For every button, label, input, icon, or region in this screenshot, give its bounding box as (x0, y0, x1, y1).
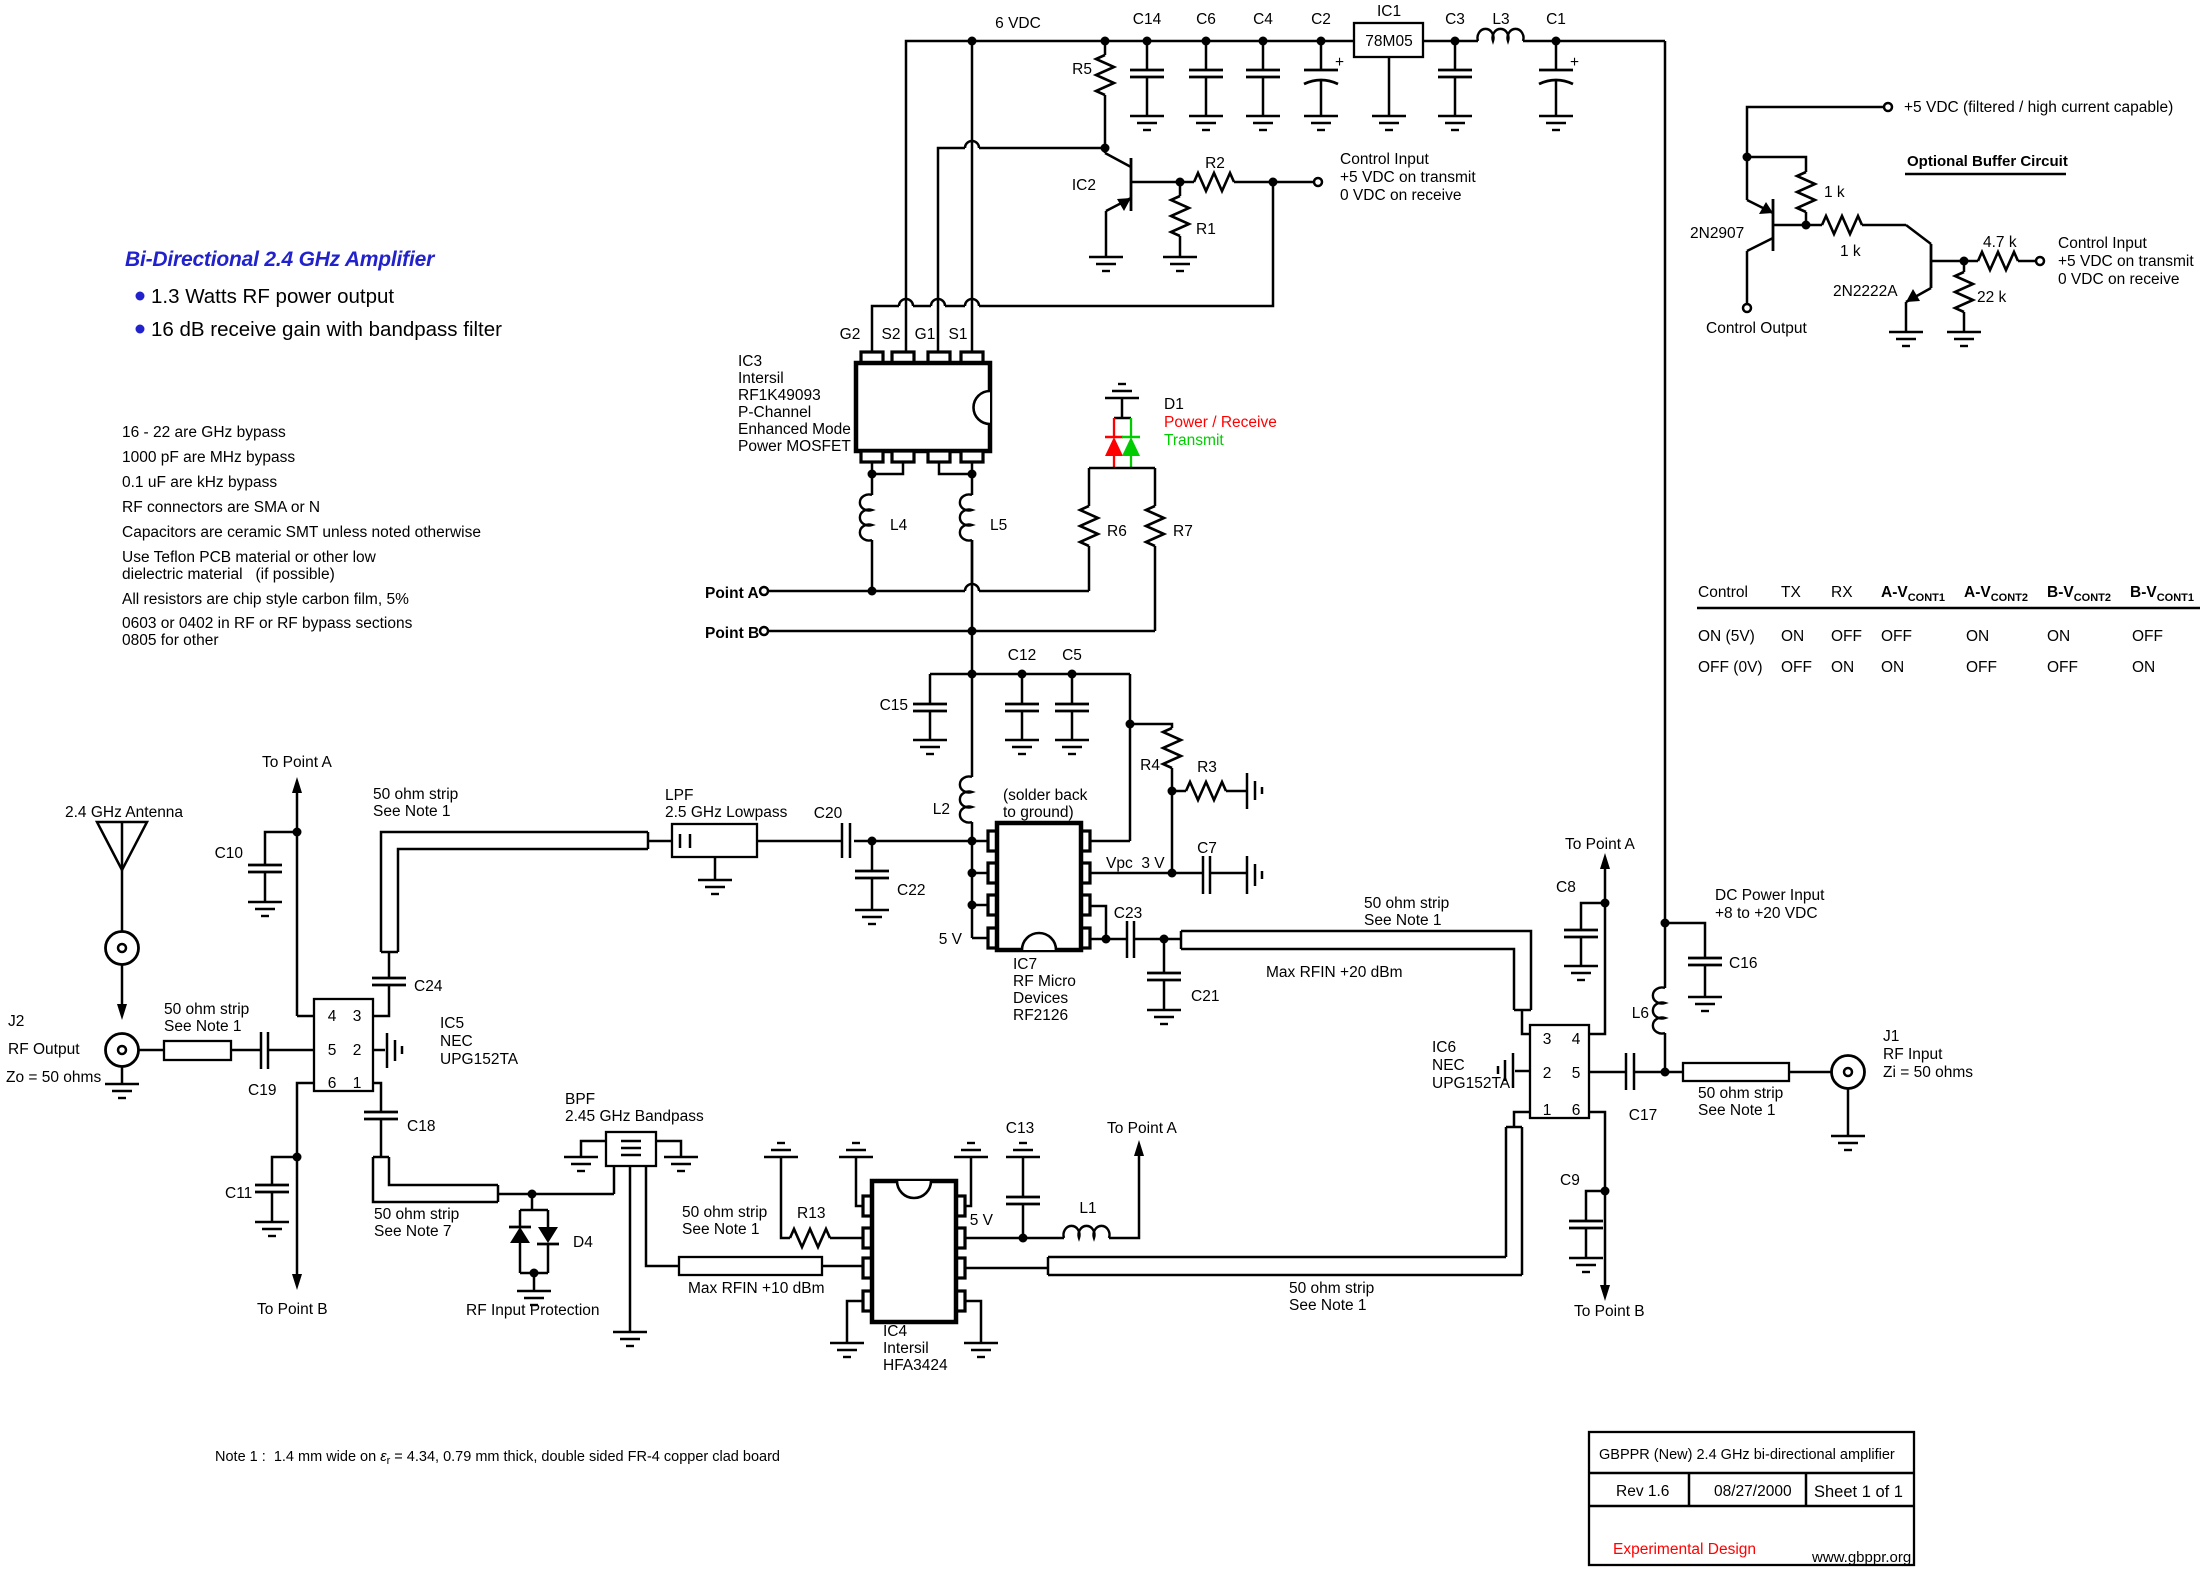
label bullet 2 (136, 318, 503, 341)
wire antenna to J2 arrow (117, 965, 127, 1020)
label table row OFF (1698, 659, 2155, 676)
svg-text:C6: C6 (1196, 11, 1216, 28)
svg-text:L5: L5 (990, 517, 1007, 534)
ground C8 (1564, 966, 1598, 980)
ground IC2 emitter (1089, 257, 1123, 271)
svg-text:Max RFIN +20 dBm: Max RFIN +20 dBm (1266, 964, 1403, 981)
svg-text:To Point A: To Point A (1107, 1120, 1177, 1137)
label IC4 part info (883, 1323, 948, 1374)
capacitor C2 polarized (1304, 11, 1344, 116)
svg-text:ON (5V): ON (5V) (1698, 628, 1755, 645)
resistor R2 (1180, 155, 1273, 191)
svg-text:C19: C19 (248, 1082, 276, 1099)
ground C11 (255, 1222, 289, 1236)
node DC power junction (1661, 919, 1706, 959)
svg-text:50 ohm strip: 50 ohm strip (1698, 1085, 1783, 1102)
svg-text:L2: L2 (933, 801, 950, 818)
terminal +5 VDC filtered (1747, 99, 2173, 153)
svg-text:G2: G2 (840, 326, 861, 343)
svg-text:Note 1 : 1.4 mm wide on εr =: Note 1 : 1.4 mm wide on εr = 4.34, 0.79 … (215, 1449, 780, 1467)
svg-text:DC Power Input: DC Power Input (1715, 887, 1825, 904)
node 2N2907 emitter junction (1743, 153, 1752, 162)
label DC power input (1715, 887, 1825, 922)
svg-text:+8 to +20 VDC: +8 to +20 VDC (1715, 905, 1818, 922)
svg-text:+: + (1570, 54, 1579, 71)
svg-text:C24: C24 (414, 978, 443, 995)
svg-text:NEC: NEC (440, 1033, 473, 1050)
svg-text:To Point B: To Point B (257, 1301, 328, 1318)
ground C15 (913, 740, 947, 754)
capacitor C6 (1189, 11, 1223, 116)
capacitor C10 (215, 832, 297, 902)
svg-text:2.45 GHz Bandpass: 2.45 GHz Bandpass (565, 1108, 704, 1125)
svg-text:1: 1 (1543, 1102, 1552, 1119)
filter BPF 2.45 GHz bandpass (565, 1091, 704, 1166)
svg-text:2.5 GHz Lowpass: 2.5 GHz Lowpass (665, 804, 788, 821)
svg-text:C7: C7 (1197, 840, 1217, 857)
diode D4 protection pair (509, 1194, 593, 1291)
label 50 ohm strip TX (373, 786, 458, 820)
title block frame (1589, 1432, 1914, 1565)
wire BPF input stub (613, 1166, 616, 1194)
svg-text:2.4 GHz Antenna: 2.4 GHz Antenna (65, 804, 183, 821)
svg-text:ON: ON (1966, 628, 1989, 645)
svg-text:C11: C11 (225, 1185, 252, 1202)
label 50 ohm strip J2 (164, 1001, 249, 1035)
capacitor C20 (757, 805, 850, 858)
svg-text:See Note 1: See Note 1 (164, 1018, 242, 1035)
ground D1 (inverted) (1105, 384, 1139, 418)
svg-text:C14: C14 (1133, 11, 1162, 28)
ground C3 (1438, 116, 1472, 130)
svg-text:IC2: IC2 (1072, 177, 1096, 194)
svg-text:C2: C2 (1311, 11, 1331, 28)
svg-text:OFF: OFF (2132, 628, 2163, 645)
label 50 ohm strip J1 (1698, 1085, 1783, 1119)
label IC6 part info (1432, 1039, 1511, 1092)
node C10 junction (293, 828, 302, 837)
svg-text:OFF: OFF (1831, 628, 1862, 645)
microstrip J1 input (1683, 1063, 1831, 1081)
ground IC1 (1372, 116, 1406, 130)
svg-text:D1: D1 (1164, 396, 1184, 413)
transistor 2N2222A (NPN) (1833, 225, 1964, 332)
ground BPF left (564, 1157, 598, 1171)
ground C14 (1130, 116, 1164, 130)
svg-text:RF2126: RF2126 (1013, 1007, 1068, 1024)
capacitor C13 (1006, 1120, 1040, 1238)
svg-text:Devices: Devices (1013, 990, 1068, 1007)
terminal buffer control input (2036, 235, 2194, 288)
svg-text:0 VDC on receive: 0 VDC on receive (1340, 187, 1461, 204)
svg-text:Control Input: Control Input (1340, 151, 1429, 168)
svg-text:D4: D4 (573, 1234, 593, 1251)
svg-text:C9: C9 (1560, 1172, 1580, 1189)
svg-text:to ground): to ground) (1003, 804, 1074, 821)
wire IC4 pin4 ground (847, 1301, 863, 1343)
svg-text:OFF (0V): OFF (0V) (1698, 659, 1763, 676)
capacitor C19 (248, 1032, 314, 1099)
svg-text:IC1: IC1 (1377, 3, 1401, 20)
svg-text:C13: C13 (1006, 1120, 1034, 1137)
svg-text:0 VDC on receive: 0 VDC on receive (2058, 271, 2179, 288)
wire rail to R4 and IC7 (1090, 674, 1135, 841)
ground C2 (1304, 116, 1338, 130)
label bullet 1 (136, 285, 395, 308)
svg-text:2N2222A: 2N2222A (1833, 283, 1898, 300)
svg-text:To Point A: To Point A (262, 754, 332, 771)
node D4 junction (528, 1190, 615, 1199)
microstrip IC6 pin1 vertical (1506, 1112, 1530, 1275)
svg-text:Enhanced Mode: Enhanced Mode (738, 421, 851, 438)
svg-text:Sheet 1 of 1: Sheet 1 of 1 (1814, 1483, 1903, 1501)
capacitor C3 (1438, 11, 1472, 116)
wire G1 to IC2 collector (938, 141, 1110, 357)
node Point A (705, 585, 768, 602)
capacitor C14 (1130, 11, 1164, 116)
inductor L5 (960, 495, 1007, 585)
microstrip TX upper L-shape (381, 832, 672, 952)
wire BPF center ground (629, 1166, 632, 1332)
svg-text:Vpc 3 V: Vpc 3 V (1106, 855, 1165, 872)
svg-text:C17: C17 (1629, 1107, 1657, 1124)
resistor 1k horizontal (1806, 216, 1906, 260)
svg-text:RF Input Protection: RF Input Protection (466, 1302, 600, 1319)
svg-text:5 V: 5 V (939, 931, 963, 948)
ground R1 (1163, 257, 1197, 271)
ground IC4 pin8 (inverted) (954, 1143, 988, 1157)
svg-text:R2: R2 (1205, 155, 1225, 172)
node C22 junction (854, 837, 977, 846)
svg-text:ON: ON (2132, 659, 2155, 676)
capacitor C24 (372, 952, 443, 995)
svg-text:G1: G1 (915, 326, 936, 343)
svg-text:1000 pF are MHz bypass: 1000 pF are MHz bypass (122, 449, 295, 466)
node C11 junction (293, 1153, 302, 1162)
ground C5 (1055, 740, 1089, 754)
svg-text:Power / Receive: Power / Receive (1164, 414, 1277, 431)
svg-text:Point B: Point B (705, 625, 759, 642)
wire Vpc line (1090, 855, 1203, 873)
resistor R5 (1072, 37, 1114, 149)
LED D1 green Transmit (1122, 418, 1140, 468)
svg-text:Max RFIN +10 dBm: Max RFIN +10 dBm (688, 1280, 825, 1297)
svg-text:C20: C20 (814, 805, 843, 822)
svg-text:Use Teflon PCB material or oth: Use Teflon PCB material or other low (122, 549, 377, 566)
svg-text:TX: TX (1781, 584, 1801, 601)
label control truth table header (1698, 584, 2194, 604)
svg-text:IC5: IC5 (440, 1015, 464, 1032)
svg-text:C8: C8 (1556, 879, 1576, 896)
node L6 junction (1661, 1068, 1684, 1077)
amplifier IC4 HFA3424 (863, 1181, 965, 1322)
svg-text:+5 VDC on transmit: +5 VDC on transmit (2058, 253, 2194, 270)
capacitor C1 polarized (1539, 11, 1579, 116)
ground D4 (517, 1291, 551, 1305)
ground IC4 pin4 (830, 1343, 864, 1357)
svg-text:RF1K49093: RF1K49093 (738, 387, 821, 404)
wire 6VDC top rail (906, 15, 1665, 357)
capacitor C16 (1688, 955, 1757, 997)
wire IC7 output pin4 (1090, 906, 1127, 944)
svg-text:C3: C3 (1445, 11, 1465, 28)
svg-text:Zo = 50 ohms: Zo = 50 ohms (6, 1069, 101, 1086)
capacitor C23 (1114, 905, 1181, 958)
stub IC6 pin2 termination (1498, 1053, 1530, 1088)
svg-text:0805 for other: 0805 for other (122, 632, 219, 649)
capacitor C4 (1246, 11, 1280, 116)
svg-text:C22: C22 (897, 882, 925, 899)
svg-text:J1: J1 (1883, 1028, 1899, 1045)
label J1 (1883, 1028, 1973, 1081)
label 50 ohm strip note7 (374, 1206, 459, 1240)
svg-text:S2: S2 (882, 326, 901, 343)
node S1 rail junction (968, 37, 977, 358)
inductor L2 (933, 674, 972, 841)
label 50 ohm strip BPF (682, 1204, 767, 1238)
LED D1 red Power/Receive (1105, 418, 1123, 468)
svg-text:6: 6 (1572, 1102, 1581, 1119)
node C8 junction (1601, 899, 1610, 908)
ground J1 (1831, 1136, 1865, 1150)
label 50 ohm strip bottom (1289, 1280, 1374, 1314)
svg-text:Intersil: Intersil (883, 1340, 929, 1357)
svg-text:BPF: BPF (565, 1091, 595, 1108)
label D1 (1164, 396, 1277, 449)
svg-text:To Point B: To Point B (1574, 1303, 1645, 1320)
svg-text:+5 VDC on transmit: +5 VDC on transmit (1340, 169, 1476, 186)
svg-text:ON: ON (2047, 628, 2070, 645)
wire IC6 pin4 to Point A (1565, 836, 1635, 1034)
svg-text:R7: R7 (1173, 523, 1193, 540)
inductor L4 (860, 495, 908, 592)
svg-text:All resistors are chip style c: All resistors are chip style carbon film… (122, 591, 409, 608)
svg-text:Point A: Point A (705, 585, 759, 602)
svg-text:5: 5 (328, 1042, 337, 1059)
terminal control output (1706, 304, 1807, 337)
svg-text:L3: L3 (1492, 11, 1509, 28)
wire L5 to switched rail (971, 540, 974, 674)
wire D1 to R6 R7 (1089, 467, 1155, 470)
ground C21 (1147, 1010, 1181, 1024)
microstrip J2 output (139, 1041, 261, 1060)
svg-text:C15: C15 (880, 697, 908, 714)
svg-text:Transmit: Transmit (1164, 432, 1224, 449)
label IC3 part info (738, 353, 851, 455)
svg-text:See Note 1: See Note 1 (1364, 912, 1442, 929)
svg-text:OFF: OFF (1881, 628, 1912, 645)
capacitor C9 (1560, 1172, 1605, 1258)
resistor R4 (1130, 724, 1181, 791)
wire IC4 5V pin (965, 1212, 1064, 1243)
resistor R7 (1146, 468, 1193, 631)
svg-text:C18: C18 (407, 1118, 435, 1135)
svg-text:RF Micro: RF Micro (1013, 973, 1076, 990)
svg-text:L4: L4 (890, 517, 908, 534)
svg-text:OFF: OFF (2047, 659, 2078, 676)
connector J2 RF output (106, 1034, 139, 1085)
wire Point B line (768, 627, 1155, 636)
label 50 ohm strip note1 upper (1364, 895, 1449, 929)
ground C4 (1246, 116, 1280, 130)
terminal control input (1314, 178, 1322, 186)
svg-text:GBPPR (New) 2.4 GHz bi-directi: GBPPR (New) 2.4 GHz bi-directional ampli… (1599, 1447, 1895, 1463)
svg-text:R6: R6 (1107, 523, 1127, 540)
svg-text:NEC: NEC (1432, 1057, 1465, 1074)
ground C1 (1539, 116, 1573, 130)
connector antenna feed (106, 932, 139, 965)
svg-text:C23: C23 (1114, 905, 1142, 922)
svg-text:ON: ON (1831, 659, 1854, 676)
capacitor C5 (1055, 647, 1089, 740)
wire BPF left ground (581, 1141, 606, 1157)
label IC3 pins (840, 326, 968, 343)
capacitor C21 (1147, 939, 1219, 1010)
ground IC4 pin5 (964, 1343, 998, 1357)
svg-text:R4: R4 (1140, 757, 1160, 774)
label solder back (1003, 787, 1088, 821)
svg-text:HFA3424: HFA3424 (883, 1357, 948, 1374)
svg-text:L1: L1 (1079, 1200, 1096, 1217)
capacitor C7 (1197, 840, 1247, 894)
wire BPF to RX strip (646, 1166, 679, 1266)
svg-text:3: 3 (353, 1008, 362, 1025)
label table row ON (1698, 628, 2163, 645)
stub C7 termination (1247, 856, 1262, 894)
wire L1 to Point A arrow (1107, 1120, 1177, 1238)
svg-text:OFF: OFF (1966, 659, 1997, 676)
label control input (1340, 151, 1476, 204)
wire IC6 pin5 output (1589, 1071, 1626, 1074)
amplifier IC5 UPG152TA (314, 999, 373, 1092)
svg-text:ON: ON (1781, 628, 1804, 645)
inductor L1 (1064, 1200, 1110, 1238)
svg-text:Rev 1.6: Rev 1.6 (1616, 1483, 1669, 1500)
node Point B (705, 625, 768, 642)
ground R13 (inverted) (764, 1143, 798, 1157)
wire Point A line (768, 584, 1089, 596)
wire right vertical feed (1664, 41, 1667, 1072)
ground BPF right (664, 1157, 698, 1171)
svg-text:Control: Control (1698, 584, 1748, 601)
svg-text:IC3: IC3 (738, 353, 762, 370)
wire IC3 drain pins 1-2 (868, 462, 904, 495)
svg-text:IC6: IC6 (1432, 1039, 1456, 1056)
svg-text:+5 VDC (filtered / high curren: +5 VDC (filtered / high current capable) (1904, 99, 2173, 116)
svg-text:2N2907: 2N2907 (1690, 225, 1744, 242)
svg-text:dielectric material (if poss: dielectric material (if possible) (122, 566, 335, 583)
svg-text:50 ohm strip: 50 ohm strip (682, 1204, 767, 1221)
svg-text:50 ohm strip: 50 ohm strip (374, 1206, 459, 1223)
amplifier IC6 UPG152TA (1530, 1025, 1589, 1119)
svg-text:Bi-Directional 2.4 GHz Amplifi: Bi-Directional 2.4 GHz Amplifier (125, 248, 436, 271)
svg-text:4: 4 (1572, 1031, 1581, 1048)
stub R3 termination (1247, 773, 1262, 809)
svg-text:RF Output: RF Output (8, 1041, 80, 1058)
svg-text:Control Output: Control Output (1706, 320, 1807, 337)
svg-text:OFF: OFF (1781, 659, 1812, 676)
resistor 22k (1955, 261, 2007, 332)
wire BPF right ground (656, 1141, 681, 1157)
capacitor C12 (1005, 647, 1039, 740)
wire IC7 left supply pins (939, 841, 988, 948)
ground C22 (855, 910, 889, 924)
label IC5 part info (440, 1015, 519, 1068)
wire IC3 drain pins 3-4 (939, 462, 977, 495)
svg-text:1 k: 1 k (1824, 184, 1845, 201)
svg-text:C5: C5 (1062, 647, 1082, 664)
antenna 2.4 GHz (65, 804, 183, 931)
resistor R6 (1080, 468, 1127, 591)
svg-text:C4: C4 (1253, 11, 1273, 28)
stub IC5 pin2 termination (373, 1033, 402, 1068)
node control junction (1269, 178, 1315, 187)
svg-text:C12: C12 (1008, 647, 1036, 664)
svg-text:C1: C1 (1546, 11, 1566, 28)
svg-text:5: 5 (1572, 1065, 1581, 1082)
svg-text:0.1 uF are kHz bypass: 0.1 uF are kHz bypass (122, 474, 277, 491)
capacitor C17 (1626, 1053, 1665, 1124)
wire table underline (1697, 607, 2200, 610)
label To Point A left (262, 754, 332, 1016)
ground BPF center (613, 1332, 647, 1346)
amplifier IC7 RF2126 (988, 823, 1090, 950)
svg-text:Capacitors are ceramic SMT unl: Capacitors are ceramic SMT unless noted … (122, 524, 481, 541)
svg-text:RF Input: RF Input (1883, 1046, 1943, 1063)
svg-text:See Note 7: See Note 7 (374, 1223, 452, 1240)
ground 22k (1947, 332, 1981, 346)
svg-text:See Note 1: See Note 1 (1698, 1102, 1776, 1119)
ground C10 (248, 902, 282, 916)
microstrip IC4 to IC6 (1048, 1257, 1522, 1275)
svg-text:0603 or 0402 in RF or RF bypas: 0603 or 0402 in RF or RF bypass sections (122, 615, 413, 632)
wire IC4 pin5 ground (965, 1301, 981, 1343)
ground 2N2222A emitter (1889, 332, 1923, 346)
ground J2 (105, 1084, 139, 1098)
svg-text:50 ohm strip: 50 ohm strip (373, 786, 458, 803)
wire IC4 pin8 ground (965, 1157, 971, 1206)
filter LPF 2.5 GHz lowpass (665, 787, 788, 880)
svg-text:3: 3 (1543, 1031, 1552, 1048)
svg-text:R13: R13 (797, 1205, 825, 1222)
transistor IC2 (PNP) (1072, 148, 1180, 257)
svg-text:2: 2 (1543, 1065, 1552, 1082)
svg-text:1: 1 (353, 1075, 362, 1092)
svg-text:50 ohm strip: 50 ohm strip (1364, 895, 1449, 912)
resistor R3 (1168, 759, 1248, 800)
svg-text:4.7 k: 4.7 k (1983, 234, 2017, 251)
ground C16 (1688, 997, 1722, 1011)
svg-text:R1: R1 (1196, 221, 1216, 238)
svg-text:50 ohm strip: 50 ohm strip (1289, 1280, 1374, 1297)
ground C13 (inverted) (1006, 1143, 1040, 1157)
svg-text:Power MOSFET: Power MOSFET (738, 438, 851, 455)
svg-text:J2: J2 (8, 1013, 24, 1030)
svg-text:1.3 Watts RF power output: 1.3 Watts RF power output (151, 285, 394, 308)
svg-text:UPG152TA: UPG152TA (440, 1051, 519, 1068)
svg-text:08/27/2000: 08/27/2000 (1714, 1483, 1792, 1500)
svg-text:R5: R5 (1072, 61, 1092, 78)
svg-text:S1: S1 (949, 326, 968, 343)
wire IC5 pin6 to Point B (257, 1083, 328, 1318)
svg-text:Intersil: Intersil (738, 370, 784, 387)
svg-text:C21: C21 (1191, 988, 1219, 1005)
svg-text:RX: RX (1831, 584, 1853, 601)
capacitor C15 (880, 674, 947, 740)
node C21 junction (1160, 935, 1169, 944)
wire switched supply rail (930, 670, 1130, 679)
svg-text:6: 6 (328, 1075, 337, 1092)
